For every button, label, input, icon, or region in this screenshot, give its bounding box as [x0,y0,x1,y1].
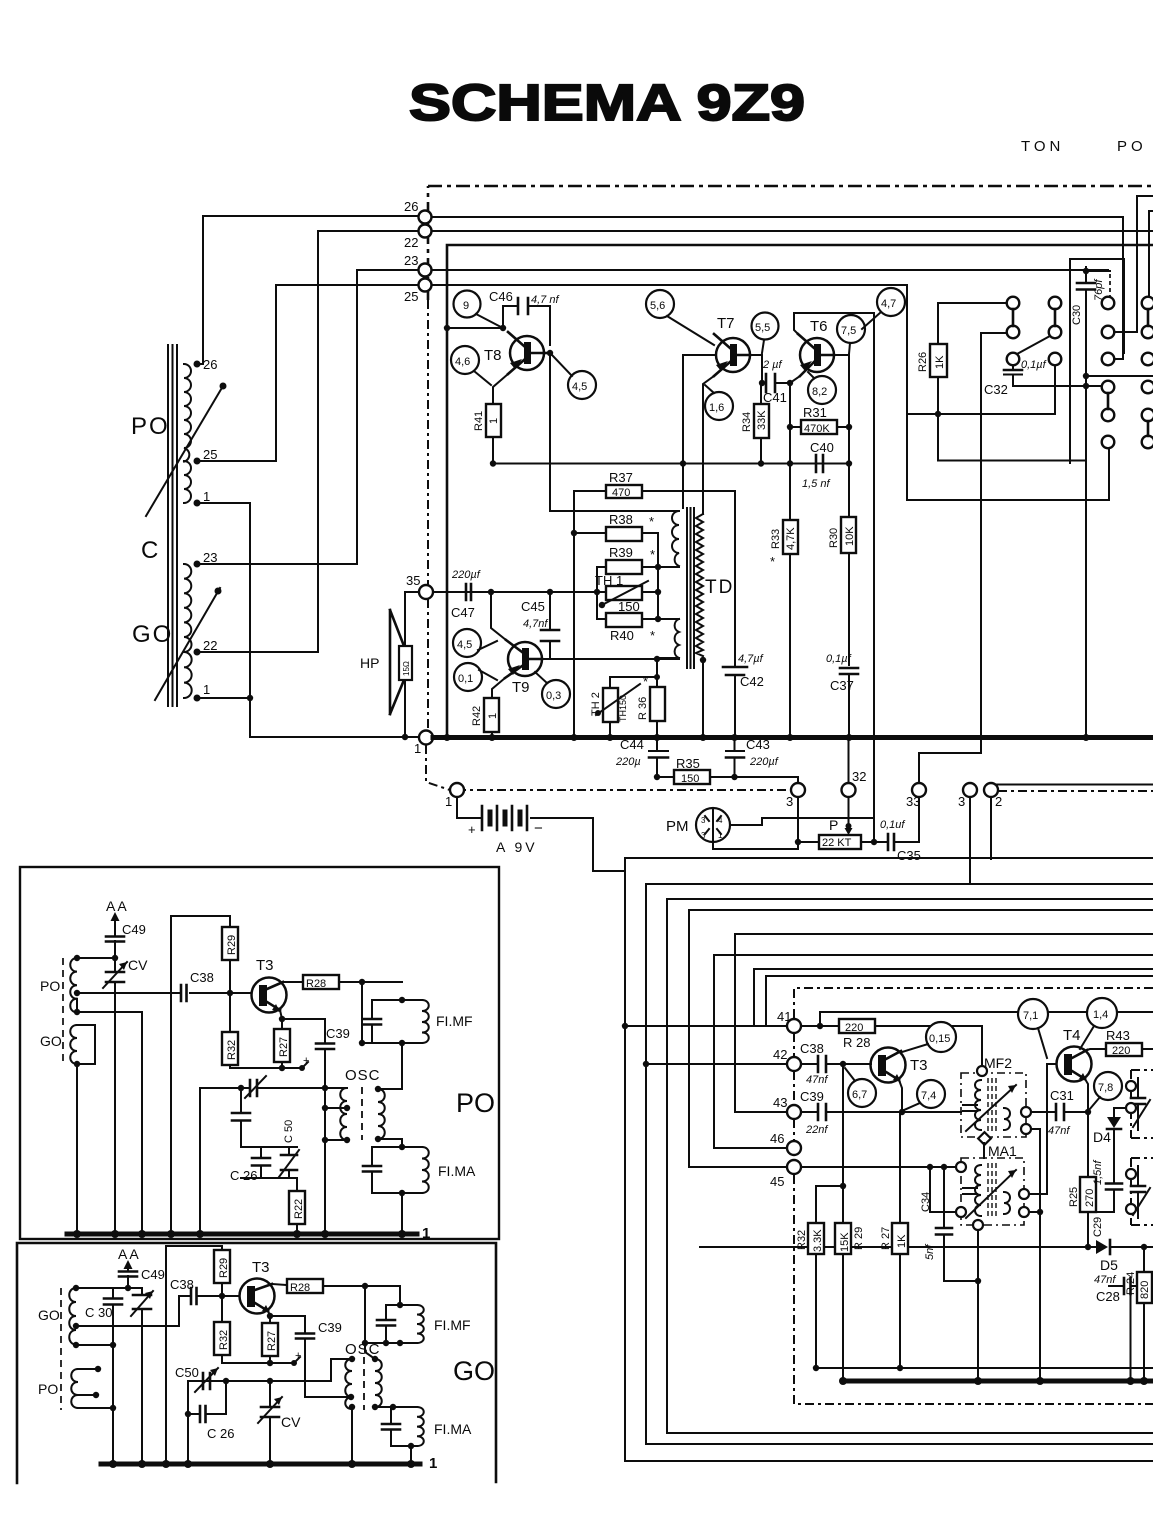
tuning line C50/C26/CV [188,1380,331,1382]
svg-text:4,7µf: 4,7µf [738,653,764,665]
TD primary upper coil [672,511,679,566]
resistor R32 (IF) [808,1223,824,1254]
svg-text:22: 22 [203,638,217,653]
wire R35 to node 3 [797,777,799,783]
TD secondary coil [696,514,703,656]
GO box ground bus [101,1462,420,1467]
dash-dot bus y790 [457,789,791,791]
svg-text:0,1uf: 0,1uf [880,819,905,831]
wire T4 collector to R43 [1087,1049,1106,1050]
capacitor C37 [840,668,858,674]
wire R41 bottom to rail [492,437,494,464]
resistor R32 (GO) [221,1296,223,1322]
wire T4 emitter down [1085,1079,1088,1112]
wire bias rail y463 [493,463,849,465]
svg-text:4,7nf: 4,7nf [523,618,548,630]
svg-text:7,5: 7,5 [841,325,856,337]
svg-text:1: 1 [445,794,452,809]
svg-text:+: + [295,1350,301,1362]
oscillator tank line [200,1087,347,1089]
voltage circle 4,5 (T8) [568,371,596,399]
wire HP bottom to node 1 [404,680,406,737]
node 3b [963,783,977,797]
svg-text:C37: C37 [830,678,854,693]
resistor R33 [783,520,798,554]
svg-text:4,7: 4,7 [881,298,896,310]
svg-text:R37: R37 [609,470,633,485]
wire node41 to R28 [801,1025,839,1027]
wire MA1 right to down chain [1029,1211,1040,1213]
adjust arrow through PO coil [146,386,223,516]
svg-text:220µf: 220µf [749,756,779,768]
svg-text:820: 820 [1139,1281,1151,1299]
bus wire 25 [432,285,1109,500]
svg-text:470: 470 [612,487,630,499]
svg-text:3: 3 [786,794,793,809]
dash-dot frame of IF block [794,988,1153,1019]
svg-text:R32: R32 [218,1330,230,1350]
OSC secondary top (GO) [365,1343,375,1359]
coil GO (short) [70,1025,77,1064]
resistor R26 [930,344,947,377]
wire GO coil bottom to bus [76,1064,78,1234]
resistor R27 (GO) [269,1316,271,1323]
resistor R27 (IF) [899,1112,901,1223]
tank trimmer (GO) [141,1288,143,1464]
wire T7 base [683,354,716,356]
wire node33 up chain [919,333,981,783]
node 43 [787,1105,801,1119]
switch contacts col4 [1142,297,1153,310]
svg-text:C41: C41 [763,390,787,405]
diode D4 [1114,1108,1126,1117]
capacitor C47 [466,584,471,600]
svg-text:3: 3 [701,831,706,840]
svg-text:33: 33 [906,794,920,809]
tap 26 [194,361,201,368]
wire switch col2 row359 to R26 line [907,365,1055,414]
svg-text:41: 41 [777,1009,791,1024]
svg-text:D5: D5 [1100,1257,1118,1273]
svg-text:R29: R29 [226,935,238,955]
voltage circle 8,2 [808,376,836,404]
wire T7 collector to C41 [750,355,762,383]
wire T3 collector to R28 [283,981,303,983]
svg-text:D4: D4 [1093,1129,1111,1145]
node 3 [791,783,805,797]
wire T4 base [1029,1064,1056,1194]
svg-text:7,4: 7,4 [921,1090,936,1102]
svg-text:1: 1 [203,682,210,697]
svg-text:A 9V: A 9V [496,839,538,855]
svg-text:C38: C38 [800,1041,824,1056]
svg-text:5,6: 5,6 [650,300,665,312]
bus wire 23 [432,269,1108,271]
tank trimmer [250,1080,257,1096]
ferrite rod [168,345,177,706]
svg-text:4,7 nf: 4,7 nf [531,294,559,306]
bias test point (GO) [291,1360,297,1366]
wire T6 base from C41 [790,376,800,383]
wire R39/R40 left bracket [596,567,598,619]
wire loop 4 [689,910,1153,1167]
wire loop 2 [646,884,1153,1444]
wire T9 collector line [542,658,679,660]
resistor R40 [606,613,642,627]
amp box border [447,245,1153,737]
svg-text:C49: C49 [141,1267,165,1282]
svg-text:R 29: R 29 [853,1227,865,1250]
PO tank mid tap [74,990,80,996]
wire inner feed b [766,976,1153,1026]
svg-text:C43: C43 [746,737,770,752]
svg-text:PO: PO [38,1381,58,1397]
wire PM bottom to node 3 [713,797,798,849]
svg-text:C29: C29 [1092,1217,1104,1237]
svg-text:4,7K: 4,7K [785,527,797,550]
tap 1 (GO coil) [194,695,201,702]
battery A 9V [457,797,482,818]
svg-text:150: 150 [681,773,699,785]
node 46 [787,1141,801,1155]
capacitor C43 [734,737,736,777]
wire loop 1 (battery minus rail) [625,858,1153,1461]
svg-text:R22: R22 [293,1199,305,1219]
wire tap25 to node 25 [197,285,418,461]
main line to mixer [77,992,251,994]
svg-text:1,4: 1,4 [1093,1009,1108,1021]
tap 25 [194,458,201,465]
svg-text:C 50: C 50 [283,1120,295,1143]
svg-text:47nf: 47nf [1048,1125,1070,1137]
svg-text:1: 1 [203,489,210,504]
svg-text:*: * [643,674,648,689]
PO box ground bus [67,1232,417,1237]
svg-text:MA1: MA1 [988,1143,1017,1159]
svg-text:R27: R27 [278,1037,290,1057]
svg-text:0,1µf: 0,1µf [1021,359,1047,371]
resistor R36 [656,659,658,687]
svg-text:C39: C39 [800,1089,824,1104]
wire T3 collector to R28 [272,1284,287,1285]
svg-text:R35: R35 [676,756,700,771]
wire loop 5 [735,934,1153,1112]
svg-text:46: 46 [770,1131,784,1146]
svg-text:5nf: 5nf [924,1244,936,1260]
resistor R30 [841,517,856,553]
svg-text:R 24: R 24 [1125,1272,1137,1295]
svg-text:TON: TON [1021,138,1064,155]
svg-text:T3: T3 [256,957,274,974]
svg-text:1: 1 [414,741,421,756]
voltage circle 9 [454,291,481,318]
svg-text:FI.MA: FI.MA [438,1163,476,1179]
svg-text:45: 45 [770,1174,784,1189]
svg-text:4,5: 4,5 [457,639,472,651]
node 42 [787,1057,801,1071]
voltage circle 7,1 [1018,999,1048,1029]
voltage circle 0,1 [454,663,482,691]
svg-text:T9: T9 [512,679,530,696]
wire T8 collector [544,352,550,355]
svg-text:R27: R27 [266,1331,278,1351]
wire MA1 bottom to bus [977,1230,979,1381]
wire T3 collector down [899,1080,902,1112]
wire tap22 to node 22 [197,231,418,652]
svg-text:8,2: 8,2 [812,386,827,398]
svg-text:*: * [649,514,654,529]
svg-text:3.3K: 3.3K [812,1229,824,1252]
svg-text:C39: C39 [326,1026,350,1041]
resistor R34 [754,404,769,438]
svg-text:+: + [303,1055,309,1067]
switch contacts col1 [1007,297,1020,310]
svg-text:R26: R26 [917,352,929,372]
capacitor C26 (GO) [188,1381,226,1414]
svg-text:C 26: C 26 [207,1426,234,1441]
svg-text:15Ω: 15Ω [402,661,411,676]
svg-text:R 27: R 27 [880,1227,892,1250]
svg-text:C 26: C 26 [230,1168,257,1183]
TD primary lower coil [675,619,679,658]
svg-text:220µ: 220µ [615,756,641,768]
voltage circle 6,7 [848,1079,876,1107]
svg-text:C31: C31 [1050,1088,1074,1103]
tap 1 (PO coil) [194,500,201,507]
svg-text:C: C [141,537,158,564]
svg-text:7,1: 7,1 [1023,1010,1038,1022]
main ground bus [433,735,1153,740]
GO box border [17,1243,496,1483]
svg-text:7,8: 7,8 [1098,1082,1113,1094]
node 32 [842,783,856,797]
wire T6 base drop R33 chain [789,383,791,520]
wire T8 emitter to R41 [493,374,508,404]
svg-text:25: 25 [203,447,217,462]
adjust arrow through GO coil [155,588,220,700]
svg-text:C38: C38 [190,970,214,985]
wire R26 top to switch [938,303,1006,344]
svg-text:R 28: R 28 [843,1035,870,1050]
wire T7 base drop [682,355,684,508]
detector output line D5 [700,1246,1153,1248]
svg-text:PO: PO [40,978,60,994]
switch lever [1017,336,1050,354]
OSC primary bottom to bus [325,1139,347,1141]
svg-text:C35: C35 [897,848,921,863]
PO tank bottom tap [77,999,142,1234]
svg-text:C32: C32 [984,382,1008,397]
wire MF2 bottom to MA1 [983,1143,985,1158]
tap 22 [194,649,201,656]
switch contacts col2 [1049,297,1062,310]
svg-text:HP: HP [360,655,379,671]
svg-text:42: 42 [773,1047,787,1062]
wire col3 row359 jog [1114,355,1123,359]
svg-text:C42: C42 [740,674,764,689]
node 41 [787,1019,801,1033]
svg-text:R32: R32 [796,1230,808,1250]
resistor R29 [222,927,238,960]
svg-text:C28: C28 [1096,1289,1120,1304]
tank bottom line [76,1345,113,1464]
svg-text:−: − [534,820,543,837]
svg-text:1K: 1K [896,1234,908,1248]
svg-text:220µf: 220µf [451,569,481,581]
svg-text:270: 270 [1084,1189,1096,1207]
resistor R42 [484,698,499,732]
svg-text:T7: T7 [717,315,735,332]
resistor R25 [1087,1112,1089,1177]
svg-text:R39: R39 [609,545,633,560]
wire col1 row332 to chain [981,332,1006,334]
capacitor C30 [1085,267,1087,735]
svg-text:23: 23 [404,253,418,268]
voltage circle 7,4 [917,1080,945,1108]
svg-text:C44: C44 [620,737,644,752]
svg-text:AA: AA [118,1246,141,1262]
pot wiper from node 32 [848,797,850,831]
coil PO (short, GO box) [71,1369,78,1408]
svg-text:FI.MF: FI.MF [434,1317,471,1333]
wire T6 collector up [794,313,874,334]
svg-text:C46: C46 [489,289,513,304]
svg-text:10K: 10K [844,526,856,546]
svg-text:CV: CV [128,957,148,973]
wire R37 left drop [573,491,575,735]
wire node45 line to MA1 [801,1166,956,1168]
svg-text:C47: C47 [451,605,475,620]
OSC secondary top [378,1043,402,1089]
capacitor C42 [734,491,736,735]
wire audio line x874 [873,313,875,842]
svg-text:GO: GO [453,1356,495,1386]
svg-text:R32: R32 [226,1040,238,1060]
svg-text:22nf: 22nf [805,1124,828,1136]
svg-text:FI.MF: FI.MF [436,1013,473,1029]
resistor R22 [296,1178,298,1191]
OSC secondary bottom (GO) [375,1406,393,1408]
svg-text:26: 26 [203,357,217,372]
svg-text:47nf: 47nf [1094,1274,1116,1286]
wire PO tap1 down [197,503,250,737]
wire HP top to node 35 [405,592,419,646]
svg-text:R28: R28 [290,1282,310,1294]
svg-text:0,15: 0,15 [929,1033,950,1045]
node 22 [419,225,432,238]
svg-text:R29: R29 [218,1258,230,1278]
OSC secondary bottom [378,1139,402,1147]
capacitor C44 [656,737,658,777]
coil PO tank [77,957,115,959]
svg-text:C39: C39 [318,1320,342,1335]
wire col3 row332 jog [1114,196,1153,332]
wire TD lower primary bottom [660,657,679,659]
node 26 [419,211,432,224]
switch contacts col3 [1102,297,1115,310]
svg-text:*: * [770,554,775,569]
wire R26 bottom [937,377,939,461]
svg-text:0,1: 0,1 [458,673,473,685]
dash-dot top frame [428,186,1153,300]
svg-text:PO: PO [1117,138,1147,155]
voltage circle 4,6 [451,346,479,374]
coil PO (antenna) [184,364,191,462]
svg-text:33K: 33K [756,410,768,430]
resistor R41 [486,404,501,437]
svg-text:R41: R41 [473,411,485,431]
svg-text:T6: T6 [810,318,828,335]
svg-text:C30: C30 [1071,305,1083,325]
voltage circle 4,7 [877,288,905,316]
wire y376 to right edge [1086,375,1153,377]
wire tap23 to node 23 [197,270,418,564]
node 33 [912,783,926,797]
svg-text:R33: R33 [770,529,782,549]
TD core [687,508,694,668]
resistor R32 [229,993,231,1032]
wire PO short coil bottom [78,1407,113,1409]
svg-text:GO: GO [38,1307,60,1323]
node 25 [419,279,432,292]
node 35 [419,585,433,599]
svg-text:3: 3 [958,794,965,809]
wire T8 collector drop [550,353,679,511]
svg-text:1,6: 1,6 [709,402,724,414]
bus wire 26 [432,217,1123,355]
wire col3 row442 drop [1108,449,1110,500]
svg-text:32: 32 [852,769,866,784]
svg-text:PO: PO [131,413,170,440]
coil GO (antenna) [184,564,192,652]
wire R33 down to bus [789,554,791,735]
svg-text:220: 220 [1112,1045,1130,1057]
svg-text:PO: PO [456,1088,495,1118]
wire T3 emitter [280,1010,282,1019]
bias test point [299,1065,305,1071]
wire emitter chain down [848,427,850,517]
svg-text:150: 150 [618,599,640,614]
svg-text:25: 25 [404,289,418,304]
wire loop 3 [667,899,1153,1433]
bus wire 22 [432,230,1153,232]
svg-text:T3: T3 [910,1057,928,1074]
svg-text:R25: R25 [1068,1187,1080,1207]
supply rail R29 (GO) [166,1246,222,1464]
svg-text:*: * [650,628,655,643]
thermistor TH2 [610,677,657,688]
double line right of node 2 [997,784,1153,786]
wire MF2 right lower to bus [1031,1129,1040,1381]
svg-text:C45: C45 [521,599,545,614]
node 45 [787,1160,801,1174]
wire PM right to audio line [730,818,874,825]
wire TD mid tap [658,566,679,568]
svg-text:3: 3 [701,816,706,825]
svg-text:1: 1 [429,1455,437,1472]
svg-text:TD: TD [705,577,734,598]
svg-text:26: 26 [404,199,418,214]
bias chain R32/R29 [842,1064,844,1223]
svg-text:1,5 nf: 1,5 nf [802,478,830,490]
svg-text:SCHEMA 9Z9: SCHEMA 9Z9 [409,74,805,131]
wire common to node 1 [250,736,419,738]
voltage circle 7,5 [837,315,865,343]
svg-text:0,1µf: 0,1µf [826,653,852,665]
svg-text:AA: AA [106,898,129,914]
svg-text:*: * [650,547,655,562]
svg-text:R28: R28 [306,978,326,990]
